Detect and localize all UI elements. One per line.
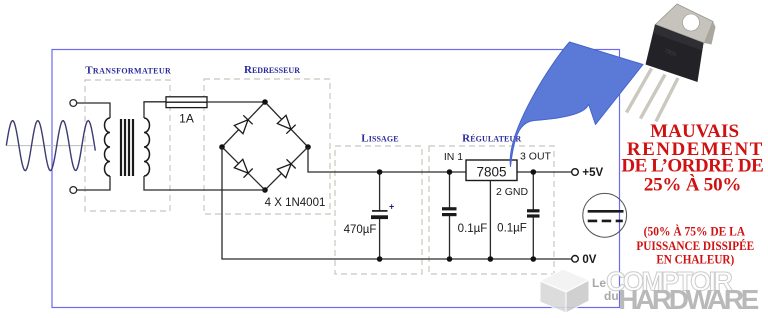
svg-text:1A: 1A <box>179 112 194 126</box>
wire fuse to bridge top <box>207 101 265 103</box>
node C1 bottom <box>377 256 383 262</box>
svg-text:EN CHALEUR): EN CHALEUR) <box>656 252 734 267</box>
fuse F1 <box>166 97 207 108</box>
node GND rail <box>488 256 494 262</box>
svg-text:Lissage: Lissage <box>361 133 398 145</box>
node C2 top <box>447 169 453 175</box>
svg-text:+5V: +5V <box>582 167 603 179</box>
diode D2 (top-right) <box>277 115 296 134</box>
AC source sine wave <box>6 121 95 171</box>
svg-text:IN 1: IN 1 <box>444 151 463 163</box>
svg-text:4 X 1N4001: 4 X 1N4001 <box>265 197 326 209</box>
wire bridge right to +rail <box>308 147 466 172</box>
arrow callout <box>510 42 643 167</box>
wire +rail out to +5V <box>517 171 573 173</box>
svg-text:DE L’ORDRE DE: DE L’ORDRE DE <box>621 156 764 177</box>
svg-text:Transformateur: Transformateur <box>85 65 171 77</box>
diode D1 (left-top) <box>234 115 253 134</box>
svg-text:2 GND: 2 GND <box>496 186 529 198</box>
svg-text:7805: 7805 <box>476 165 506 180</box>
wire input bottom <box>77 176 110 190</box>
svg-text:du: du <box>604 289 619 303</box>
node bridge right <box>305 144 311 150</box>
wire secondary bottom to bridge <box>144 176 265 190</box>
bridge rectifier frame <box>222 102 308 190</box>
svg-text:3 OUT: 3 OUT <box>520 151 552 163</box>
svg-text:0.1µF: 0.1µF <box>458 223 488 235</box>
wire input top <box>77 103 110 118</box>
svg-text:0.1µF: 0.1µF <box>497 223 527 235</box>
logo text <box>592 267 759 316</box>
node C1 top <box>377 169 383 175</box>
svg-text:25% À 50%: 25% À 50% <box>644 174 742 196</box>
capacitor C2 0.1µF <box>442 172 457 259</box>
transformer T1 <box>105 118 150 176</box>
svg-text:Le: Le <box>592 276 606 290</box>
logo cube <box>540 269 589 313</box>
capacitor C3 0.1µF <box>527 172 540 259</box>
svg-text:(50% À 75% DE LA: (50% À 75% DE LA <box>644 224 746 239</box>
terminal input bottom <box>70 187 77 194</box>
regulator U1 7805 <box>466 160 517 181</box>
node C3 top <box>531 169 537 175</box>
svg-text:Redresseur: Redresseur <box>244 64 300 76</box>
DC output symbol <box>583 193 627 237</box>
node C2 bottom <box>447 256 453 262</box>
diode D4 (bottom-right) <box>277 159 296 178</box>
svg-text:HARDWARE: HARDWARE <box>618 284 759 315</box>
red annotation heading <box>621 121 764 196</box>
terminal +5V <box>572 169 579 176</box>
node bridge left <box>219 144 225 150</box>
section box Redresseur <box>204 64 330 214</box>
wire secondary top to fuse <box>144 102 166 118</box>
diode D3 (left-bottom) <box>234 159 253 178</box>
svg-text:470µF: 470µF <box>344 224 377 236</box>
node bridge bottom <box>262 187 268 193</box>
section box Régulateur <box>429 133 554 275</box>
terminal 0V <box>572 255 579 262</box>
section box Transformateur <box>85 65 171 212</box>
wire bridge left to 0V rail <box>222 147 573 259</box>
red annotation note <box>636 224 754 267</box>
node C3 bottom <box>531 256 537 262</box>
svg-text:0V: 0V <box>582 254 596 266</box>
svg-text:+: + <box>389 202 394 212</box>
TO-220 photo <box>627 4 716 122</box>
capacitor C1 470µF <box>371 172 394 259</box>
terminal input top <box>70 100 77 107</box>
node bridge top <box>262 99 268 105</box>
section box Lissage <box>335 133 422 275</box>
wire GND pin <box>489 181 491 260</box>
